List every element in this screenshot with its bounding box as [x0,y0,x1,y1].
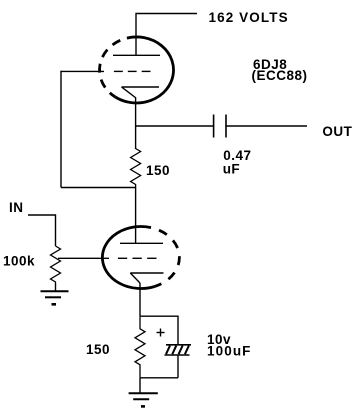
svg-text:150: 150 [146,163,170,178]
wire bottom plate lead [135,188,137,244]
wire bypass cap to bottom junction [177,355,179,378]
polarity + sign [157,329,165,337]
triode U1b lower (6DJ8) envelope [102,227,179,289]
triode U1b cathode [130,273,163,283]
wire B+ supply to top tube plate [136,13,197,56]
triode U1b plate [120,242,163,244]
resistor R1 150 (upper) [131,149,141,189]
triode U1a plate [113,54,160,56]
triode U1a cathode [122,87,160,98]
svg-text:(ECC88): (ECC88) [252,68,308,83]
triode U1a grid [114,70,151,72]
resistor R2 100k [51,246,61,285]
wire junction to ground [139,378,141,393]
capacitor C1 0.47uF [214,115,226,138]
wire IN to grid resistor [28,214,56,246]
wire cathode T to bypass cap [140,316,178,345]
triode U1b grid [118,257,157,259]
wire feedback: top grid to bottom plate junction [61,71,136,188]
capacitor C2 100uF top plate [166,344,191,346]
svg-text:150: 150 [86,342,110,357]
svg-text:IN: IN [9,200,24,215]
wire 100k to ground [55,284,57,291]
capacitor C2 100uF hatched plate [165,346,190,355]
wire capacitor to OUT [226,125,307,127]
wire bottom cathode down [139,283,141,316]
wire grid tap to bottom tube [58,257,109,259]
ground (cathode) [129,393,158,406]
svg-text:100k: 100k [3,254,35,269]
svg-text:100uF: 100uF [207,344,252,359]
wire bottom junction [140,377,178,379]
wire to output capacitor [136,125,213,127]
svg-text:uF: uF [223,161,241,176]
ground (input) [41,291,69,304]
triode U1a upper (6DJ8) envelope [100,37,174,103]
resistor R3 150 (cathode) [135,316,145,378]
svg-text:162 VOLTS: 162 VOLTS [209,10,289,25]
wire top tube cathode down to resistor [135,98,137,149]
svg-text:OUT: OUT [322,124,352,139]
